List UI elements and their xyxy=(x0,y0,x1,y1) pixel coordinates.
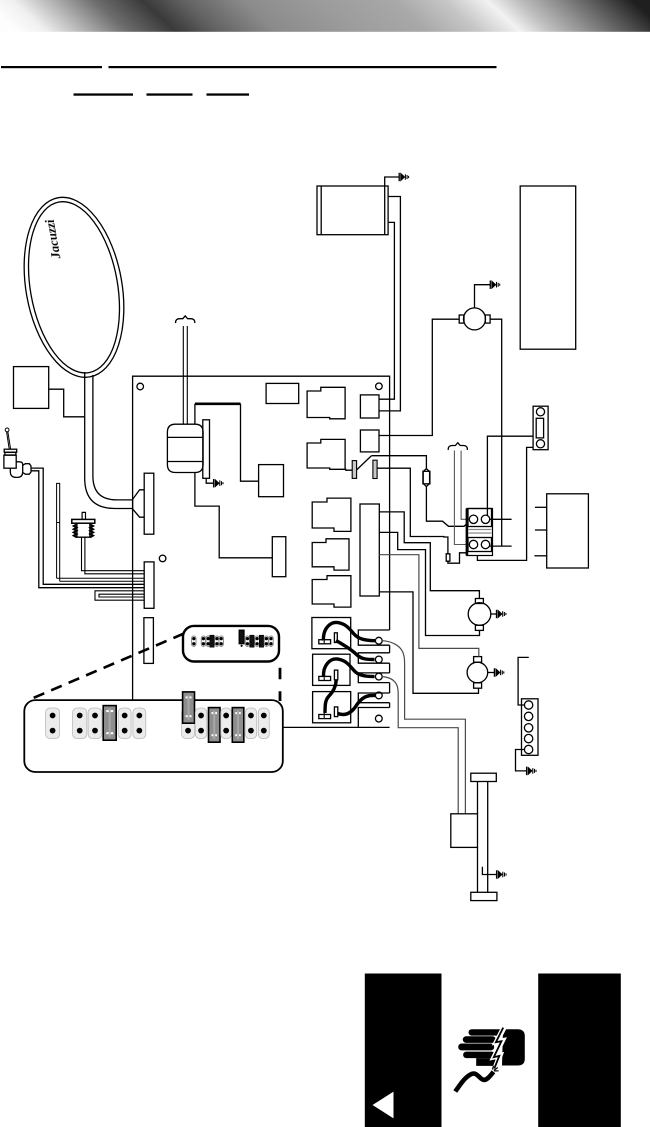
folded spare wire inner loop xyxy=(99,594,144,597)
heater housing xyxy=(547,494,589,568)
footer back-arrow triangle xyxy=(373,1092,394,1119)
jumper pin header xyxy=(73,708,87,739)
pressure switch blade xyxy=(357,456,372,470)
hi-limit thermostat body xyxy=(75,523,91,537)
wire coil to U2 xyxy=(195,404,259,481)
heater terminal block left wall xyxy=(466,509,469,556)
wire heater tube to ground xyxy=(482,867,496,875)
strip ring 3 xyxy=(524,724,532,732)
wire pump1 to ground xyxy=(491,613,497,615)
legend pin header xyxy=(269,636,273,646)
terminal bar B xyxy=(319,676,331,680)
wire bottom pair tail xyxy=(490,545,512,547)
terminal block header CN2 xyxy=(360,430,379,452)
wire top pair tail xyxy=(490,518,512,520)
board edge terminal slot 5 xyxy=(358,708,389,728)
wire fuse to heater terminal block xyxy=(426,487,467,527)
ground (coil plate) xyxy=(214,479,223,487)
subheading underline 3 xyxy=(207,93,250,95)
heater terminal top-left ring xyxy=(469,515,477,523)
topside control panel inner oval xyxy=(16,194,132,380)
board edge terminal slot 1 xyxy=(358,630,389,645)
transformer T1 left cap xyxy=(320,186,322,235)
toggle switch boot xyxy=(10,462,22,478)
shock hazard icon: cable xyxy=(455,1072,493,1092)
ground (transformer) xyxy=(399,173,408,181)
wire K2 to pressure switch xyxy=(345,468,352,471)
jumper wire B2-C xyxy=(325,680,336,713)
transformer T1 right cap xyxy=(384,186,386,235)
line filter coil L1 xyxy=(167,424,203,472)
wire stub to strip xyxy=(518,657,529,705)
pump 2 motor xyxy=(467,662,488,683)
wire circ pump right to heater block xyxy=(490,319,502,546)
PCB mounting hole top-right xyxy=(376,383,383,390)
heater terminal divider xyxy=(468,530,492,534)
wire CN3 to pump2 top xyxy=(379,555,479,657)
legend pin header xyxy=(206,636,210,646)
heater housing stub 2 xyxy=(535,529,547,531)
wire CN3 to pump1 top xyxy=(379,512,479,599)
jumper shunt (installed) xyxy=(232,708,244,743)
coil L1 upper winding line xyxy=(167,436,203,438)
terminal bar C xyxy=(319,715,331,719)
jumper pin header xyxy=(195,708,207,739)
legend jumper shunt raised xyxy=(239,630,244,644)
ground (circ pump) xyxy=(490,281,499,289)
relay K3 xyxy=(312,498,351,531)
heater hookup wire 1 xyxy=(382,641,465,814)
connector J1 (keypad) xyxy=(144,473,154,534)
pressure switch right contact xyxy=(373,460,377,478)
terminal post A xyxy=(334,633,337,643)
wire jog to block bottom xyxy=(448,553,467,563)
wire circ pump to ground xyxy=(475,285,491,308)
PCB mounting hole mid-left xyxy=(159,555,166,562)
jumper shunt (installed) xyxy=(103,706,116,741)
fuse holder F2 slot xyxy=(536,418,543,438)
terminal bar A xyxy=(319,640,331,644)
wire coil top thick run xyxy=(195,402,241,405)
heading underline left xyxy=(1,66,102,68)
heater terminal bottom-left ring xyxy=(469,540,477,548)
hi-limit thermostat stem xyxy=(82,512,86,519)
shock hazard icon: finger 4 xyxy=(463,1052,495,1059)
heater element lead 2 xyxy=(461,451,468,520)
accessory terminal strip xyxy=(522,699,539,756)
circ pump right terminal xyxy=(485,315,490,323)
wire fuse holder bottom loop xyxy=(477,447,533,560)
fuse holder F2 body xyxy=(533,406,548,450)
jumper box A xyxy=(312,618,351,649)
toggle switch plug xyxy=(23,464,31,475)
strip ring 4 xyxy=(524,734,532,742)
wire pump2 to ground xyxy=(488,672,495,674)
heater tube top flange xyxy=(471,773,497,781)
fuse holder F2 bottom ring xyxy=(536,440,544,448)
pump 1 motor xyxy=(468,603,491,626)
jumper settings legend block xyxy=(183,626,279,662)
heading underline right xyxy=(109,66,497,68)
relay K4 xyxy=(312,539,349,570)
terminal post C xyxy=(334,707,337,717)
terminal ring 3 xyxy=(375,673,382,680)
shock hazard icon: palm xyxy=(476,1058,500,1066)
temp sensor probe xyxy=(56,483,60,581)
jumper pin header xyxy=(88,708,102,739)
toggle switch cable xyxy=(31,468,144,588)
jumper shunt (installed) xyxy=(209,708,221,743)
main circuit board xyxy=(133,376,390,727)
legend pin header xyxy=(215,636,219,646)
wire coil bottom to J4 xyxy=(195,473,272,558)
fuse F1 xyxy=(423,469,429,487)
jumper wire A1 xyxy=(323,622,375,640)
wire pressure switch blade to fuse xyxy=(371,456,426,469)
toggle switch lever ball xyxy=(5,428,9,432)
relay K1 xyxy=(307,387,345,419)
heater junction box xyxy=(451,814,478,848)
heater element lead 1 xyxy=(454,451,468,545)
connector J3 xyxy=(144,618,154,664)
wire pressure switch to heater terminal xyxy=(377,468,448,554)
heater tube walls xyxy=(478,782,488,893)
jumper pin header (under raised shunt) xyxy=(182,708,195,739)
pump 2 bottom terminal xyxy=(474,683,482,688)
toggle switch nut xyxy=(5,452,16,455)
jog connector pressure line xyxy=(446,554,450,561)
circulation pump motor xyxy=(464,308,486,330)
ground (heater tube) xyxy=(497,870,506,878)
PCB mounting hole top-left xyxy=(137,383,144,390)
legend pin header xyxy=(192,636,196,646)
relay K5 xyxy=(312,576,351,607)
hi-limit thermostat right fins xyxy=(90,524,93,537)
board edge terminal slot 3 xyxy=(358,673,389,683)
wire coil plate to ground xyxy=(206,478,213,483)
shock hazard icon: bolt xyxy=(494,1028,503,1069)
shock hazard icon: fist xyxy=(502,1029,525,1065)
enlarged jumper detail box xyxy=(24,700,283,772)
terminal ring 4 xyxy=(375,692,382,699)
legend pin header xyxy=(201,636,205,646)
heater terminal block body xyxy=(467,509,493,556)
jumper pin header xyxy=(245,708,257,739)
pressure switch left contact xyxy=(352,461,356,479)
jumper wire C1 xyxy=(338,695,375,714)
legend pin header xyxy=(219,636,223,646)
legend jumper shunt xyxy=(250,635,254,647)
toggle switch body xyxy=(4,455,16,468)
jumper pin header xyxy=(46,708,60,739)
cable-continues brace (heater element) xyxy=(448,443,467,450)
dashed zoom line left xyxy=(32,634,184,699)
legend pin header xyxy=(245,636,249,646)
header J4 xyxy=(272,537,286,577)
warning footer black box xyxy=(365,974,621,1127)
keypad cable inner conductor xyxy=(93,375,133,500)
jumper shunt (raised/parked) xyxy=(183,692,195,723)
heater terminal bottom pair housing xyxy=(468,538,492,552)
fuse holder F2 top ring xyxy=(536,408,544,416)
wire transformer to ground xyxy=(385,177,400,186)
shock hazard icon: spark xyxy=(493,1066,499,1071)
strip ring 5 xyxy=(524,745,532,753)
shock hazard icon: finger 3 xyxy=(458,1044,494,1051)
hi-limit thermostat left fins xyxy=(74,524,77,537)
connector J2 xyxy=(144,562,154,608)
keypad connector funnel xyxy=(133,490,145,517)
ground (pump 2) xyxy=(494,668,503,676)
circ pump left terminal xyxy=(459,315,464,323)
heater terminal top-right ring xyxy=(481,515,489,523)
fuse F1 body xyxy=(423,471,430,484)
ground (pump 1) xyxy=(497,610,506,618)
heater tube bottom flange xyxy=(471,892,497,900)
transformer secondary wire 1 xyxy=(379,197,400,411)
terminal block header CN1 xyxy=(360,395,379,418)
wire from auxiliary panel box to keypad cable xyxy=(49,389,85,417)
transformer T1 xyxy=(317,186,388,235)
warning footer white band xyxy=(442,974,539,1127)
auxiliary panel box xyxy=(14,367,49,409)
heater housing stub 3 xyxy=(534,555,546,557)
terminal ring 5 xyxy=(375,715,382,722)
wire circ pump left to CN2 xyxy=(379,319,459,435)
wire CN3 to pump2 bottom xyxy=(379,592,478,693)
toggle switch bushing xyxy=(4,449,17,452)
heater hookup wire 2 xyxy=(382,677,458,814)
pump 2 top terminal xyxy=(474,657,482,663)
pump 1 top terminal xyxy=(475,599,483,604)
shock hazard icon: finger 2 xyxy=(463,1036,496,1043)
subheading underline 1 xyxy=(74,93,134,95)
header metallic banner xyxy=(0,0,650,32)
terminal post B xyxy=(334,670,337,680)
jumper pin header xyxy=(118,708,131,739)
strip ring 2 xyxy=(524,712,532,720)
keypad cable outer conductor xyxy=(85,372,133,509)
subheading underline 2 xyxy=(147,93,193,95)
heater housing stub 1 xyxy=(535,506,547,508)
jumper pin header xyxy=(133,708,146,739)
jumper box C xyxy=(313,692,351,723)
jumper wire B1 xyxy=(323,659,374,677)
jumper pin header xyxy=(258,708,269,739)
heater terminal top pair housing xyxy=(468,509,492,527)
relay K2 xyxy=(307,439,345,469)
output header CN3 xyxy=(360,504,379,596)
ground (terminal strip) xyxy=(527,767,536,775)
coil L1 mounting plate xyxy=(203,420,210,479)
board edge terminal slot 4 xyxy=(358,693,389,703)
jumper pin header xyxy=(221,708,232,739)
temp sensor cable xyxy=(57,578,145,581)
dashed zoom line right xyxy=(279,668,282,701)
jumper box B xyxy=(313,654,350,685)
cable-continues brace (antenna) xyxy=(176,316,195,323)
antenna wire pair xyxy=(183,326,187,424)
transformer secondary wire 2 xyxy=(379,222,394,399)
control enclosure box xyxy=(520,186,576,349)
shock hazard icon: bolt white channel xyxy=(494,1027,504,1069)
heater terminal bottom-right ring xyxy=(481,540,489,548)
board edge terminal slot 2 xyxy=(358,653,389,663)
pump 1 bottom terminal xyxy=(475,625,483,630)
toggle switch lever xyxy=(7,432,11,450)
hi-limit thermostat leads xyxy=(82,537,145,574)
legend pin header xyxy=(255,636,259,646)
folded spare wire outer loop xyxy=(95,591,144,600)
IC U1 xyxy=(266,383,299,403)
legend jumper shunt xyxy=(259,635,263,647)
legend jumper shunt xyxy=(210,635,214,647)
wire fuse holder to heater top xyxy=(487,436,533,515)
terminal ring 2 xyxy=(375,656,382,663)
topside control panel outer oval xyxy=(11,189,137,385)
wire CN3 to pump1 bottom xyxy=(379,532,479,635)
IC U2 xyxy=(259,465,284,497)
coil L1 lower winding line xyxy=(167,461,203,463)
hi-limit thermostat cap xyxy=(72,519,95,523)
wire strip to ground xyxy=(516,750,527,771)
strip ring 1 xyxy=(524,701,532,709)
legend pin header xyxy=(264,636,268,646)
shock hazard icon: finger 1 xyxy=(469,1029,506,1035)
jumper wire A2 xyxy=(336,641,375,660)
terminal ring 1 xyxy=(375,637,382,644)
